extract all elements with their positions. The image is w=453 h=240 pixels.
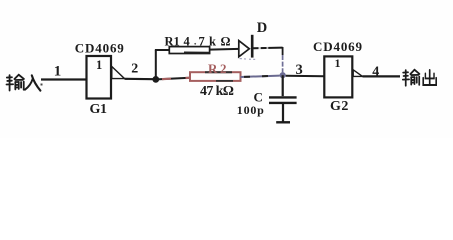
wire R2 to node 3 (purple) [241, 76, 280, 77]
svg-text:3: 3 [296, 62, 303, 78]
svg-text:CD4069: CD4069 [75, 40, 125, 55]
capacitor lower stem [282, 103, 284, 122]
wire to R1 [155, 49, 170, 51]
wire R1 to diode [210, 48, 239, 51]
wire R2 left lead (red) [162, 78, 171, 81]
出 char [423, 70, 436, 85]
diode cathode bar [251, 35, 254, 58]
wire G1 to node 2 [125, 78, 155, 81]
node 3 junction [280, 72, 286, 78]
输 char [403, 70, 420, 86]
svg-text:4: 4 [372, 64, 379, 79]
resistor R2 (highlighted red) [190, 72, 241, 81]
输 char [7, 75, 24, 91]
svg-text:CD4069: CD4069 [313, 39, 363, 54]
dark marks on R2 edges [205, 71, 232, 73]
node OUT label 输出 [403, 70, 436, 86]
wire diode to corner [254, 47, 283, 50]
svg-text:100p: 100p [237, 103, 264, 117]
inverter output wedge G1 [112, 67, 125, 79]
wire node2 up [155, 50, 157, 79]
capacitor C top plate [269, 96, 297, 98]
wire G2 to output [363, 75, 401, 77]
wire corner down to node 3 [282, 47, 284, 55]
speck (scan noise) [41, 84, 43, 86]
wire input to G1 [41, 78, 87, 80]
svg-text:D: D [257, 20, 267, 36]
入 char [25, 75, 40, 90]
capacitor C stem [282, 75, 284, 96]
smudge in R1 [184, 51, 209, 53]
wire node2 to R2 (black) [159, 78, 190, 80]
svg-text:1: 1 [96, 58, 102, 72]
svg-text:R2: R2 [208, 61, 227, 76]
svg-text:47 kΩ: 47 kΩ [200, 84, 234, 99]
svg-text:7: 7 [199, 35, 205, 49]
node 2 junction [152, 76, 159, 83]
svg-text:1: 1 [54, 64, 62, 80]
inverter gate U2 (G2) box [324, 56, 352, 97]
wire node 3 to G2 [286, 75, 325, 77]
svg-text:kΩ: kΩ [209, 35, 231, 49]
resistor R1 [169, 47, 209, 54]
svg-text:R1: R1 [165, 35, 180, 49]
capacitor bottom terminal [276, 121, 290, 123]
svg-text:2: 2 [131, 62, 138, 77]
svg-text:G1: G1 [90, 102, 108, 117]
inverter output wedge G2 [353, 70, 362, 77]
svg-text:4: 4 [184, 35, 191, 49]
diode D [239, 41, 250, 57]
svg-text:G2: G2 [330, 99, 348, 114]
svg-text:1: 1 [335, 56, 341, 70]
scan marks under diode [240, 58, 247, 60]
node IN label 输入 [7, 75, 41, 91]
capacitor C bottom plate [269, 102, 297, 104]
inverter gate U1 (G1) box [87, 56, 112, 99]
